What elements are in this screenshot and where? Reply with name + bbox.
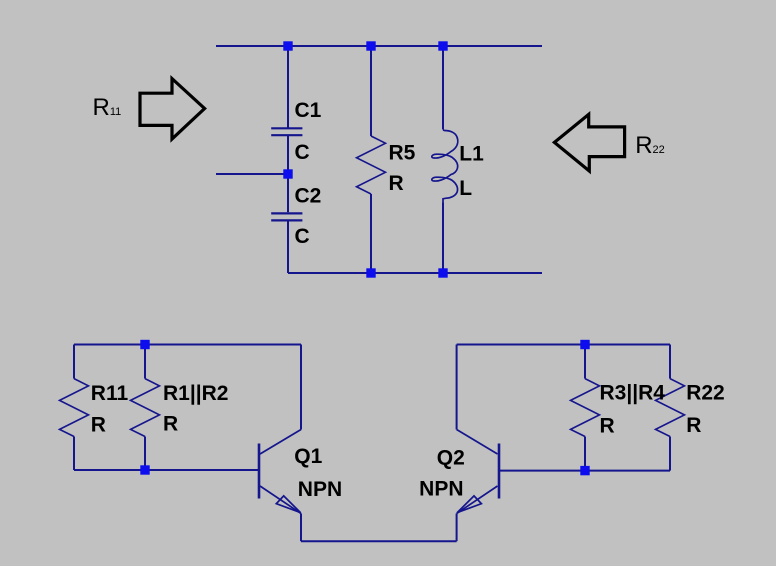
wire L1 top lead bbox=[442, 46, 444, 130]
wire R22 bottom lead bbox=[669, 437, 671, 471]
node top rail / L1 bbox=[438, 41, 447, 50]
arrow R22 (output port, pointing left) bbox=[554, 114, 624, 171]
wire Q1 collector bbox=[300, 345, 302, 430]
svg-text:Q2: Q2 bbox=[437, 446, 465, 469]
resistor R5 bbox=[357, 136, 386, 194]
wire base rail right network bbox=[500, 470, 670, 472]
wire Q2 emitter down bbox=[456, 514, 458, 542]
resistor R1||R2 bbox=[131, 379, 160, 437]
wire L1 bottom lead bbox=[442, 203, 444, 274]
svg-text:R: R bbox=[389, 172, 404, 195]
resistor R3||R4 bbox=[571, 379, 600, 437]
svg-text:R: R bbox=[91, 414, 106, 437]
wire R1||R2 top lead bbox=[144, 345, 146, 379]
wire Q1 emitter down bbox=[300, 514, 302, 542]
svg-text:Q1: Q1 bbox=[294, 445, 322, 468]
wire C1 to mid node bbox=[287, 136, 289, 174]
wire C branch upper bbox=[287, 46, 289, 128]
wire top rail bbox=[216, 45, 542, 47]
wire C2 to bottom rail bbox=[287, 221, 289, 273]
capacitor C2 bbox=[271, 213, 302, 220]
wire top rail of left bias network bbox=[74, 344, 301, 346]
svg-text:NPN: NPN bbox=[298, 478, 342, 501]
wire R1||R2 bottom lead bbox=[144, 437, 146, 471]
svg-text:C1: C1 bbox=[295, 99, 322, 122]
transistor Q2 bbox=[457, 430, 499, 514]
wire mid stub left bbox=[216, 173, 288, 175]
wire R5 top lead bbox=[370, 46, 372, 136]
svg-text:L: L bbox=[459, 177, 472, 200]
svg-text:C2: C2 bbox=[295, 185, 322, 208]
wire R11 top lead bbox=[73, 345, 75, 379]
svg-text:R5: R5 bbox=[389, 142, 416, 165]
wire R3||R4 top lead bbox=[584, 345, 586, 379]
svg-text:R: R bbox=[163, 413, 178, 436]
wire top rail of right bias network bbox=[457, 344, 670, 346]
svg-text:C: C bbox=[295, 141, 310, 164]
node bottom rail / L1 bbox=[438, 268, 447, 277]
wire bottom rail left bias network to Q1 base bbox=[74, 469, 258, 471]
resistor R22 bbox=[656, 379, 685, 437]
wire bottom rail top circuit bbox=[288, 272, 542, 274]
svg-text:R22: R22 bbox=[686, 382, 725, 405]
wire Q2 collector bbox=[456, 345, 458, 430]
wire R5 bottom lead bbox=[370, 194, 372, 273]
inductor L1 bbox=[432, 130, 458, 203]
svg-text:R1||R2: R1||R2 bbox=[163, 382, 228, 405]
transistor Q1 bbox=[259, 430, 301, 514]
node left network top bbox=[140, 340, 149, 349]
wire R3||R4 bottom lead bbox=[584, 437, 586, 471]
svg-text:R11: R11 bbox=[91, 382, 129, 405]
resistor R11 bbox=[60, 379, 89, 437]
svg-text:R3||R4: R3||R4 bbox=[600, 382, 666, 405]
wire R22 top lead bbox=[669, 345, 671, 379]
node bottom rail / R5 bbox=[366, 268, 375, 277]
node top rail / R5 bbox=[366, 41, 375, 50]
wire R11 bottom lead bbox=[73, 437, 75, 471]
node right network top bbox=[580, 340, 589, 349]
svg-text:R: R bbox=[600, 414, 615, 437]
capacitor C1 bbox=[271, 128, 302, 135]
node mid tap C1-C2 bbox=[283, 169, 292, 178]
node right network bottom bbox=[580, 466, 589, 475]
wire mid node to C2 bbox=[287, 174, 289, 212]
arrow R11 (input port, pointing right) bbox=[140, 79, 205, 139]
wire emitter link bbox=[301, 540, 457, 542]
svg-text:R: R bbox=[686, 414, 701, 437]
node left network bottom bbox=[140, 465, 149, 474]
node top rail / C1 bbox=[283, 41, 292, 50]
svg-text:L1: L1 bbox=[459, 142, 484, 165]
svg-text:C: C bbox=[295, 225, 310, 248]
svg-text:NPN: NPN bbox=[419, 477, 463, 500]
